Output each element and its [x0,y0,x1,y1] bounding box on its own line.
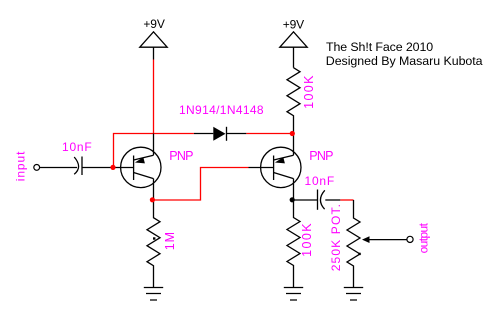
svg-text:input: input [13,151,27,182]
svg-text:+9V: +9V [283,17,304,31]
svg-text:output: output [417,222,431,253]
svg-text:10nF: 10nF [62,140,92,154]
svg-text:PNP: PNP [169,149,193,163]
svg-text:10nF: 10nF [305,174,335,188]
svg-text:1N914/1N4148: 1N914/1N4148 [179,103,264,117]
svg-text:100K: 100K [302,74,316,109]
svg-text:100K: 100K [300,222,314,257]
svg-text:250K POT.: 250K POT. [329,203,343,271]
svg-text:+9V: +9V [143,17,164,31]
svg-text:1M: 1M [163,231,177,250]
svg-text:Designed By Masaru Kubota: Designed By Masaru Kubota [326,54,483,68]
svg-text:PNP: PNP [309,149,333,163]
svg-text:The Sh!t Face 2010: The Sh!t Face 2010 [326,40,433,54]
